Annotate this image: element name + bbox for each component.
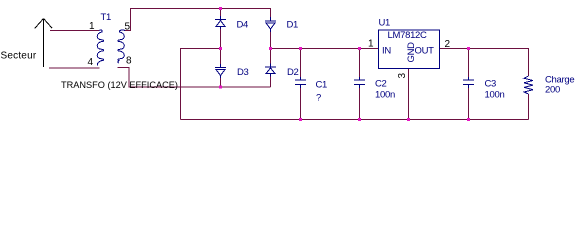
svg-text:D1: D1 [287,20,299,31]
wire D4 bottom to mid-left node [220,29,222,49]
svg-text:1: 1 [368,39,374,50]
svg-text:100n: 100n [485,90,505,101]
diode D1 (bar top, triangle down) [265,17,276,32]
transformer T1 secondary winding [118,30,125,63]
svg-text:100n: 100n [375,90,395,101]
svg-text:D4: D4 [237,20,249,31]
wire D4 top [220,9,222,17]
wire mid-left node to ground leg [181,49,221,120]
wire pin4 stub [49,67,100,69]
wire load bottom leg [528,94,530,120]
wire bottom ground rail [181,119,529,121]
diode D4 (bar top, triangle up) [215,16,226,29]
wire pin1 stub [50,30,99,32]
junction dots [219,7,470,121]
wire pin5 to top rail [125,9,271,31]
svg-text:C2: C2 [375,79,387,90]
transformer T1 primary winding [97,30,103,66]
svg-text:4: 4 [88,57,94,68]
wire C1 top leg [300,49,302,78]
svg-text:Secteur: Secteur [1,51,37,62]
capacitor C3 [463,77,474,88]
wire input rail to regulator [271,48,379,50]
diode D2 (bar top, triangle up) [265,64,276,77]
diode D3 (bar top, triangle down) [215,64,226,78]
wire D2 top to mid-right node [270,49,272,64]
svg-text:T1: T1 [101,12,112,23]
svg-text:2: 2 [445,39,451,50]
wire D1 bottom [270,32,272,49]
wire D2 bottom [270,77,272,88]
wire pin8 down-leg and AC2 run [118,68,271,88]
svg-text:3: 3 [397,72,408,78]
wire D3 top [220,49,222,65]
svg-text:U1: U1 [379,18,391,29]
svg-text:C1: C1 [316,80,328,91]
svg-text:8: 8 [126,56,132,67]
svg-text:IN: IN [382,46,391,57]
capacitor C2 [354,77,365,88]
svg-text:D3: D3 [237,67,249,78]
svg-text:200: 200 [545,85,560,96]
wire C3 bottom leg [468,88,470,120]
svg-text:C3: C3 [485,79,497,90]
wire regulator GND pin [408,69,410,120]
wire C2 bottom leg [359,88,361,120]
regulator U1 box [379,30,440,69]
source arrow (Secteur) [35,19,52,68]
wire D3 bottom to AC2 [220,78,222,87]
svg-text:LM7812C: LM7812C [388,30,428,41]
svg-text:?: ? [316,93,321,104]
wire C3 top leg [468,49,470,78]
wire output rail [440,49,529,77]
wire C2 top leg [359,49,361,78]
svg-text:D2: D2 [287,67,299,78]
resistor Rcharge zigzag [524,76,533,94]
capacitor C1 [295,77,306,88]
svg-text:1: 1 [89,21,95,32]
svg-text:OUT: OUT [415,46,435,57]
svg-text:5: 5 [125,22,131,33]
svg-text:GND: GND [406,42,417,63]
svg-text:TRANSFO (12V EFFICACE): TRANSFO (12V EFFICACE) [61,80,178,90]
wire C1 bottom leg [300,88,302,120]
